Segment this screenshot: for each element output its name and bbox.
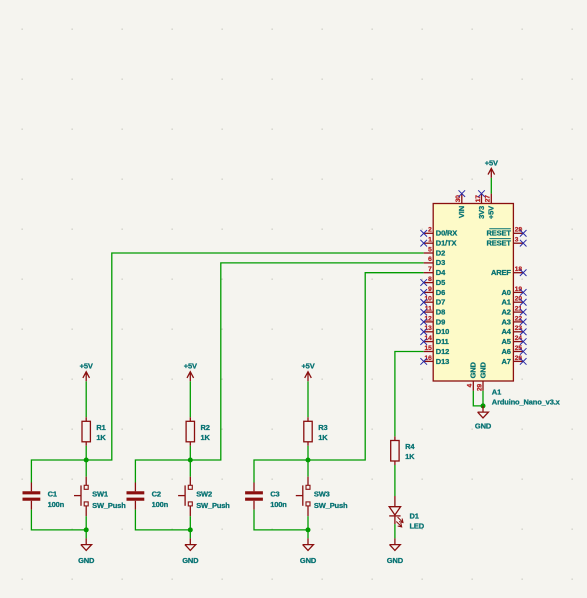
svg-text:27: 27 — [485, 195, 492, 203]
wire capacitor C2 to bottom junction — [135, 510, 190, 530]
svg-text:3: 3 — [515, 237, 519, 244]
no-connect X on pin D1/TX — [420, 240, 427, 247]
svg-text:25: 25 — [515, 345, 523, 352]
wire junction to Arduino pin D2 — [86, 253, 424, 460]
svg-text:GND: GND — [387, 556, 404, 565]
no-connect X on pin D10 — [420, 329, 427, 336]
bottom junction node circuit 3 — [306, 527, 311, 532]
svg-text:D13: D13 — [436, 357, 449, 366]
svg-text:D8: D8 — [436, 308, 445, 317]
svg-text:+5V: +5V — [184, 362, 197, 371]
svg-text:1K: 1K — [405, 452, 415, 461]
svg-text:A3: A3 — [502, 317, 511, 326]
svg-text:GND: GND — [469, 361, 478, 378]
junction node (R1/SW1/C1) — [84, 458, 89, 463]
svg-text:9: 9 — [428, 286, 432, 293]
svg-text:GND: GND — [475, 421, 492, 430]
pin GND (pin 4) bottom — [472, 381, 474, 391]
svg-text:1K: 1K — [318, 433, 328, 442]
pin D13 (pin 16) left — [424, 360, 434, 362]
svg-text:C1: C1 — [48, 489, 57, 498]
wire junction to capacitor C3 — [254, 460, 308, 483]
svg-text:A1: A1 — [502, 298, 511, 307]
svg-text:SW3: SW3 — [314, 490, 330, 499]
wire junction to Arduino pin D3 — [190, 263, 423, 460]
svg-text:+5V: +5V — [80, 362, 93, 371]
no-connect X on pin D11 — [420, 338, 427, 345]
svg-text:100n: 100n — [270, 500, 287, 509]
pin D4 (pin 7) left — [424, 272, 434, 274]
svg-text:SW1: SW1 — [92, 490, 108, 499]
svg-text:A4: A4 — [502, 327, 512, 336]
svg-text:6: 6 — [428, 256, 432, 263]
svg-text:26: 26 — [515, 355, 523, 362]
svg-text:17: 17 — [475, 195, 482, 203]
svg-text:C3: C3 — [270, 489, 279, 498]
ground symbol at x=395 — [390, 538, 401, 550]
svg-text:30: 30 — [455, 195, 462, 203]
no-connect X on pin A1 — [520, 299, 527, 306]
svg-text:D6: D6 — [436, 288, 445, 297]
no-connect X on pin VIN — [459, 190, 466, 197]
svg-text:2: 2 — [428, 227, 432, 234]
ground symbol at x=308 — [303, 538, 314, 550]
no-connect X on pin D8 — [420, 309, 427, 316]
svg-text:4: 4 — [467, 384, 474, 388]
svg-text:22: 22 — [515, 315, 523, 322]
switch SW1 SW_Push — [85, 477, 87, 486]
resistor R2 1K — [189, 417, 191, 421]
pin D2 (pin 5) left — [424, 252, 434, 254]
svg-text:8: 8 — [428, 276, 432, 283]
pin D6 (pin 9) left — [424, 291, 434, 293]
wire to ground circuit 2 — [189, 530, 191, 539]
no-connect X on pin D9 — [420, 319, 427, 326]
svg-text:VIN: VIN — [457, 206, 466, 218]
pin A5 (pin 24) right — [513, 341, 523, 343]
svg-text:16: 16 — [425, 355, 433, 362]
switch SW3 SW_Push — [307, 477, 309, 486]
pin D3 (pin 6) left — [424, 262, 434, 264]
svg-text:1K: 1K — [96, 433, 106, 442]
svg-text:GND: GND — [78, 556, 95, 565]
svg-text:D11: D11 — [436, 337, 449, 346]
junction node (R3/SW3/C3) — [306, 458, 311, 463]
capacitor C3 100n — [253, 483, 255, 492]
wire junction to capacitor C2 — [135, 460, 190, 483]
pin A4 (pin 23) right — [513, 331, 523, 333]
resistor R1 1K — [85, 417, 87, 421]
svg-text:+5V: +5V — [485, 158, 498, 167]
wire GND pin 29 to junction — [482, 391, 484, 406]
svg-text:7: 7 — [428, 266, 432, 273]
overline on RESET — [489, 228, 511, 230]
svg-text:AREF: AREF — [491, 268, 511, 277]
pin D5 (pin 8) left — [424, 282, 434, 284]
svg-text:D1/TX: D1/TX — [436, 239, 457, 248]
pin A2 (pin 21) right — [513, 311, 523, 313]
svg-text:D1: D1 — [410, 512, 419, 521]
svg-text:5: 5 — [428, 246, 432, 253]
svg-text:D12: D12 — [436, 347, 449, 356]
svg-text:24: 24 — [515, 335, 523, 342]
svg-text:+5V: +5V — [301, 362, 314, 371]
svg-text:GND: GND — [478, 361, 487, 378]
svg-text:R2: R2 — [201, 423, 210, 432]
pin +5V (pin 27) top — [490, 194, 492, 204]
no-connect X on pin RESET — [520, 240, 527, 247]
svg-text:21: 21 — [515, 306, 523, 313]
svg-text:D5: D5 — [436, 278, 445, 287]
no-connect X on pin A2 — [520, 309, 527, 316]
svg-text:LED: LED — [410, 522, 425, 531]
svg-text:R1: R1 — [96, 423, 105, 432]
wire switch SW2 to bottom junction — [189, 516, 191, 530]
no-connect X on pin AREF — [520, 269, 527, 276]
svg-text:20: 20 — [515, 296, 523, 303]
junction node (R2/SW2/C2) — [188, 458, 193, 463]
no-connect X on pin D0/RX — [420, 230, 427, 237]
capacitor C1 100n — [30, 483, 32, 492]
pin A6 (pin 25) right — [513, 351, 523, 353]
svg-text:29: 29 — [476, 384, 483, 392]
wire switch SW3 to bottom junction — [307, 516, 309, 530]
bottom junction node circuit 2 — [188, 527, 193, 532]
pin AREF (pin 18) right — [513, 272, 523, 274]
pin D8 (pin 11) left — [424, 311, 434, 313]
wire switch SW1 to bottom junction — [85, 516, 87, 530]
wire R3 to junction — [307, 446, 309, 460]
no-connect X on pin D13 — [420, 358, 427, 365]
no-connect X on pin A5 — [520, 338, 527, 345]
svg-text:3V3: 3V3 — [477, 206, 486, 219]
svg-text:C2: C2 — [152, 489, 161, 498]
wire R2 to junction — [189, 446, 191, 460]
ground symbol at x=483 — [478, 406, 489, 418]
svg-text:15: 15 — [425, 345, 433, 352]
pin A3 (pin 22) right — [513, 321, 523, 323]
svg-text:11: 11 — [425, 306, 432, 313]
wire LED to ground — [394, 524, 396, 538]
svg-text:28: 28 — [515, 227, 523, 234]
svg-text:R4: R4 — [405, 442, 415, 451]
svg-text:A2: A2 — [502, 308, 511, 317]
pin A7 (pin 26) right — [513, 360, 523, 362]
no-connect X on pin A6 — [520, 348, 527, 355]
wire Arduino D12 to resistor R4 — [395, 352, 424, 437]
svg-text:13: 13 — [425, 325, 433, 332]
svg-text:RESET: RESET — [487, 229, 512, 238]
wire junction to switch SW1 — [85, 460, 87, 477]
svg-text:D0/RX: D0/RX — [436, 229, 457, 238]
svg-text:+5V: +5V — [487, 206, 496, 219]
svg-text:D2: D2 — [436, 248, 445, 257]
svg-text:12: 12 — [425, 315, 433, 322]
wire capacitor C1 to bottom junction — [31, 510, 86, 530]
pin RESET (pin 28) right — [513, 232, 523, 234]
wire +5V symbol to pin 27 — [490, 178, 492, 194]
pin D12 (pin 15) left — [424, 351, 434, 353]
pin D10 (pin 13) left — [424, 331, 434, 333]
pin D1/TX (pin 1) left — [424, 242, 434, 244]
pin D11 (pin 14) left — [424, 341, 434, 343]
no-connect X on pin 3V3 — [478, 190, 485, 197]
svg-text:10: 10 — [425, 296, 433, 303]
wire junction to switch SW2 — [189, 460, 191, 477]
ground symbol at x=86 — [81, 538, 92, 550]
svg-text:Arduino_Nano_v3.x: Arduino_Nano_v3.x — [492, 397, 561, 406]
wire to ground circuit 1 — [85, 530, 87, 539]
overline on RESET — [489, 238, 511, 240]
no-connect X on pin A3 — [520, 319, 527, 326]
svg-text:D10: D10 — [436, 327, 449, 336]
wire R4 to LED D1 — [394, 465, 396, 496]
wire to ground circuit 3 — [307, 530, 309, 539]
switch SW2 SW_Push — [189, 477, 191, 486]
resistor R4 1K — [394, 436, 396, 440]
pin A0 (pin 19) right — [513, 291, 523, 293]
svg-text:A0: A0 — [502, 288, 511, 297]
wire +5V to R1 — [85, 381, 87, 417]
wire R1 to junction — [85, 446, 87, 460]
svg-text:A7: A7 — [502, 357, 511, 366]
IC A1 Arduino_Nano_v3.x body — [433, 204, 513, 382]
svg-text:GND: GND — [300, 556, 317, 565]
no-connect X on pin RESET — [520, 230, 527, 237]
svg-text:SW2: SW2 — [196, 490, 212, 499]
svg-text:D9: D9 — [436, 317, 445, 326]
svg-text:19: 19 — [515, 286, 523, 293]
no-connect X on pin A4 — [520, 329, 527, 336]
svg-text:18: 18 — [515, 266, 523, 273]
no-connect X on pin D6 — [420, 289, 427, 296]
svg-text:GND: GND — [182, 556, 199, 565]
pin GND (pin 29) bottom — [482, 381, 484, 391]
svg-text:1K: 1K — [201, 433, 211, 442]
wire junction to switch SW3 — [307, 460, 309, 477]
ground symbol at x=190 — [185, 538, 196, 550]
capacitor C2 100n — [134, 483, 136, 492]
svg-text:SW_Push: SW_Push — [92, 501, 126, 510]
svg-text:D7: D7 — [436, 298, 445, 307]
pin 3V3 (pin 17) top — [481, 194, 483, 204]
svg-text:RESET: RESET — [487, 239, 512, 248]
pin D9 (pin 12) left — [424, 321, 434, 323]
pin A1 (pin 20) right — [513, 301, 523, 303]
wire junction to Arduino pin D4 — [308, 273, 424, 460]
wire +5V to R2 — [189, 381, 191, 417]
svg-text:14: 14 — [425, 335, 433, 342]
svg-text:100n: 100n — [152, 500, 169, 509]
svg-text:100n: 100n — [48, 500, 65, 509]
no-connect X on pin D7 — [420, 299, 427, 306]
pin D0/RX (pin 2) left — [424, 232, 434, 234]
svg-text:1: 1 — [428, 237, 432, 244]
wire GND pin 4 to junction — [473, 391, 483, 406]
svg-text:A6: A6 — [502, 347, 511, 356]
wire capacitor C3 to bottom junction — [254, 510, 308, 530]
svg-text:D4: D4 — [436, 268, 446, 277]
svg-text:A5: A5 — [502, 337, 511, 346]
svg-text:SW_Push: SW_Push — [314, 501, 348, 510]
bottom junction node circuit 1 — [84, 527, 89, 532]
svg-text:R3: R3 — [318, 423, 327, 432]
svg-text:A1: A1 — [492, 388, 501, 397]
svg-text:23: 23 — [515, 325, 523, 332]
svg-text:D3: D3 — [436, 258, 445, 267]
no-connect X on pin A7 — [520, 358, 527, 365]
pin D7 (pin 10) left — [424, 301, 434, 303]
pin VIN (pin 30) top — [461, 194, 463, 204]
no-connect X on pin A0 — [520, 289, 527, 296]
pin RESET (pin 3) right — [513, 242, 523, 244]
no-connect X on pin D5 — [420, 279, 427, 286]
wire +5V to R3 — [307, 381, 309, 417]
junction node GND — [481, 403, 486, 408]
svg-text:SW_Push: SW_Push — [196, 501, 230, 510]
LED D1 — [394, 496, 396, 507]
wire junction to capacitor C1 — [31, 460, 86, 483]
resistor R3 1K — [307, 417, 309, 421]
